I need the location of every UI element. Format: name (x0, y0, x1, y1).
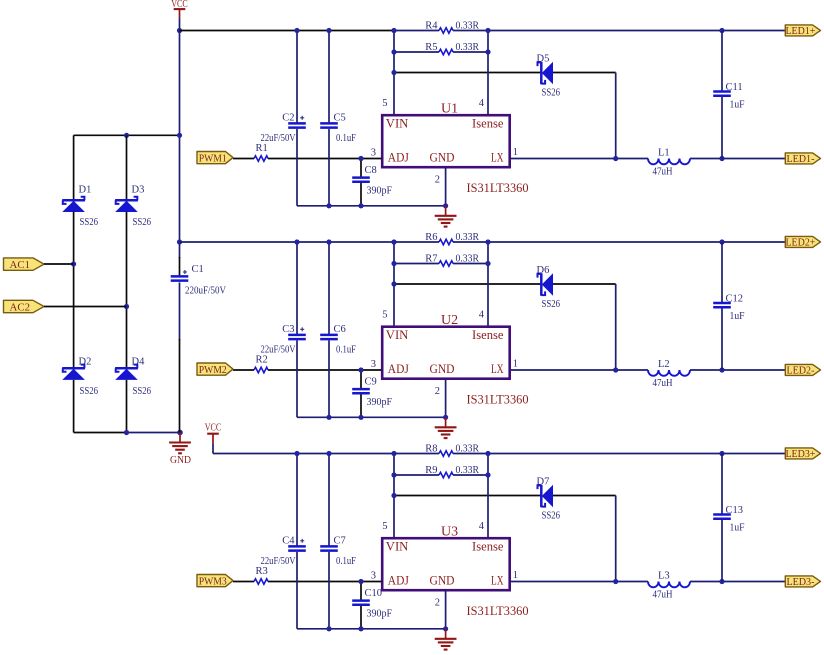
port LED1+ (785, 25, 820, 36)
diode D3 SS26 (115, 199, 138, 202)
op-amp U2 IS31LT3360 regulator box (382, 327, 510, 379)
svg-text:47uH: 47uH (653, 590, 673, 601)
wire VCC stub (179, 19, 181, 31)
svg-text:R7: R7 (425, 253, 437, 264)
svg-text:R8: R8 (425, 443, 437, 454)
svg-text:ADJ: ADJ (388, 150, 409, 165)
wire freewheel row to D6 (394, 283, 541, 285)
ground symbol GND main (179, 433, 181, 443)
svg-text:5: 5 (382, 309, 387, 320)
wire Isense pin stub (487, 31, 489, 117)
svg-text:LED3+: LED3+ (785, 448, 815, 460)
svg-text:PWM2: PWM2 (199, 364, 227, 376)
wire D6 anode down to LX (615, 284, 617, 370)
svg-text:VIN: VIN (386, 539, 409, 554)
capacitor C13 1uF (721, 454, 723, 514)
ground symbol channel 3 (445, 629, 447, 639)
ground symbol channel 1 (445, 206, 447, 216)
svg-text:390pF: 390pF (367, 185, 393, 196)
wire ADJ row from PWM3 (233, 581, 254, 583)
capacitor C12 1uF (721, 242, 723, 302)
svg-text:D5: D5 (537, 54, 550, 65)
port AC2 (4, 300, 45, 312)
svg-text:4: 4 (479, 309, 485, 320)
svg-text:GND: GND (430, 150, 455, 165)
power symbol VCC top (174, 8, 186, 10)
svg-text:C3: C3 (282, 324, 294, 335)
svg-text:0.33R: 0.33R (456, 465, 480, 476)
wire R7 row (394, 263, 439, 265)
svg-text:0.1uF: 0.1uF (336, 556, 356, 567)
wire ground row channel 1 (297, 205, 446, 207)
svg-text:47uH: 47uH (653, 167, 673, 178)
svg-text:220uF/50V: 220uF/50V (185, 286, 226, 297)
node channel2 rail tap (177, 239, 182, 244)
svg-text:SS26: SS26 (80, 386, 99, 397)
diode D1 SS26 (62, 199, 85, 202)
svg-text:D2: D2 (79, 356, 92, 367)
node AC2 junction (124, 304, 129, 309)
svg-text:L2: L2 (658, 359, 670, 370)
svg-text:LED2-: LED2- (786, 365, 814, 377)
svg-text:1uF: 1uF (730, 99, 745, 110)
capacitor C8 390pF (360, 159, 362, 177)
svg-text:1: 1 (513, 147, 518, 158)
svg-text:0.1uF: 0.1uF (336, 344, 356, 355)
wire VIN pin stub (393, 242, 395, 328)
wire VCC rail channel 1 (180, 30, 395, 32)
resistor R3 (254, 579, 268, 584)
port LED3+ (785, 448, 820, 459)
svg-text:C11: C11 (726, 82, 743, 93)
wire GND pin stub (445, 167, 447, 206)
resistor R7 0.33R (439, 451, 453, 456)
svg-text:3: 3 (371, 571, 376, 582)
wire bridge right column lower (126, 380, 128, 433)
op-amp U1 IS31LT3360 regulator box (382, 115, 510, 167)
node junctions channel 1 top (391, 28, 396, 33)
capacitor C1 220uF/50V (179, 242, 181, 258)
svg-text:C6: C6 (334, 324, 346, 335)
svg-text:1: 1 (513, 570, 518, 581)
svg-text:Isense: Isense (472, 327, 504, 342)
svg-text:VIN: VIN (386, 327, 409, 342)
wire R9 row (394, 474, 439, 476)
svg-text:C8: C8 (365, 165, 377, 176)
ground symbol channel 2 (445, 417, 447, 427)
svg-text:C4: C4 (282, 535, 295, 546)
svg-text:LX: LX (491, 150, 504, 165)
wire ADJ row from PWM2 (233, 369, 254, 371)
wire R5 row (394, 51, 439, 53)
capacitor C9 390pF (360, 370, 362, 388)
svg-text:2: 2 (435, 175, 440, 186)
resistor R9 0.33R (439, 472, 453, 477)
svg-text:ADJ: ADJ (388, 361, 409, 376)
wire Isense pin stub (487, 242, 489, 328)
svg-text:R6: R6 (425, 232, 437, 243)
svg-text:SS26: SS26 (133, 217, 152, 228)
svg-text:C5: C5 (334, 112, 346, 123)
svg-text:0.1uF: 0.1uF (336, 133, 356, 144)
wire bridge left column upper (73, 135, 75, 200)
svg-text:C2: C2 (282, 112, 294, 123)
svg-text:R3: R3 (256, 566, 268, 577)
svg-text:5: 5 (382, 521, 387, 532)
svg-text:3: 3 (371, 359, 376, 370)
wire VIN pin stub (393, 454, 395, 540)
wire D1 anode to AC1 node (73, 212, 75, 368)
wire freewheel row to D5 (394, 72, 541, 74)
inductor L2 47uH (648, 370, 690, 376)
svg-text:2: 2 (435, 386, 440, 397)
svg-text:R5: R5 (425, 42, 437, 53)
svg-text:IS31LT3360: IS31LT3360 (467, 603, 529, 618)
svg-text:VCC: VCC (171, 0, 188, 10)
svg-text:22uF/50V: 22uF/50V (261, 133, 296, 144)
svg-text:0.33R: 0.33R (456, 42, 480, 53)
wire D7 anode down to LX (615, 496, 617, 582)
svg-text:U3: U3 (441, 525, 458, 540)
wire AC1 stub (44, 263, 74, 265)
node VCC rail junction (177, 28, 182, 33)
port PWM2 (197, 363, 233, 375)
svg-text:0.33R: 0.33R (456, 253, 480, 264)
wire VCC lower stub (212, 443, 214, 453)
svg-text:0.33R: 0.33R (456, 443, 480, 454)
wire VIN pin stub (393, 31, 395, 117)
svg-text:2: 2 (435, 598, 440, 609)
svg-text:LED1-: LED1- (786, 153, 814, 165)
port AC1 (4, 258, 45, 270)
svg-text:SS26: SS26 (542, 299, 561, 310)
svg-text:R4: R4 (425, 20, 438, 31)
svg-text:1: 1 (513, 359, 518, 370)
port PWM1 (197, 152, 233, 164)
diode D2 SS26 (62, 367, 85, 370)
wire Isense pin stub (487, 454, 489, 540)
svg-text:LED3-: LED3- (786, 576, 814, 588)
resistor R5 0.33R (439, 49, 453, 54)
port LED3- (785, 576, 820, 587)
svg-text:LX: LX (491, 573, 504, 588)
svg-text:L1: L1 (658, 148, 670, 159)
diode D4 SS26 (115, 367, 138, 370)
svg-text:C10: C10 (365, 588, 383, 599)
svg-text:C9: C9 (365, 376, 377, 387)
svg-text:Isense: Isense (472, 539, 504, 554)
svg-text:1uF: 1uF (730, 311, 745, 322)
wire VCC rail channel 3 (213, 453, 394, 455)
svg-text:22uF/50V: 22uF/50V (261, 556, 296, 567)
svg-text:R2: R2 (256, 355, 268, 366)
svg-text:C12: C12 (726, 294, 744, 305)
svg-text:SS26: SS26 (542, 511, 561, 522)
capacitor C11 1uF (721, 31, 723, 91)
wire D3 anode to AC2 node (126, 212, 128, 368)
diode D7 SS26 schottky (540, 485, 543, 507)
svg-text:5: 5 (382, 98, 387, 109)
node ground junction (177, 430, 183, 436)
svg-text:ADJ: ADJ (388, 573, 409, 588)
node junctions channel 3 top (391, 451, 396, 456)
svg-text:GND: GND (430, 573, 455, 588)
wire LX output row channel 3 (511, 581, 649, 583)
svg-text:4: 4 (479, 521, 485, 532)
diode D5 SS26 schottky (540, 62, 543, 84)
svg-text:GND: GND (170, 454, 191, 466)
svg-text:LED1+: LED1+ (785, 25, 815, 37)
wire ground row channel 3 (297, 628, 446, 630)
svg-text:GND: GND (430, 361, 455, 376)
svg-text:3: 3 (371, 148, 376, 159)
op-amp U3 IS31LT3360 regulator box (382, 538, 510, 590)
wire freewheel row to D7 (394, 495, 541, 497)
svg-text:D6: D6 (537, 265, 550, 276)
capacitor C5 0.1uF (328, 31, 330, 123)
port PWM3 (197, 575, 233, 587)
wire D5 anode down to LX (615, 73, 617, 159)
svg-text:VCC: VCC (205, 423, 222, 434)
svg-text:0.33R: 0.33R (456, 20, 480, 31)
svg-text:D7: D7 (537, 477, 550, 488)
node junctions channel 2 top (391, 239, 396, 244)
capacitor C10 390pF (360, 582, 362, 600)
svg-text:U2: U2 (441, 313, 458, 328)
resistor R3 0.33R (439, 28, 453, 33)
wire LX output row channel 2 (511, 369, 649, 371)
wire LX output row channel 1 (511, 158, 649, 160)
svg-text:1uF: 1uF (730, 522, 745, 533)
svg-text:IS31LT3360: IS31LT3360 (467, 391, 529, 406)
capacitor C6 0.1uF (328, 242, 330, 334)
svg-text:D4: D4 (132, 356, 146, 367)
port LED1- (785, 153, 820, 164)
wire bridge bottom row to ground node (127, 432, 181, 434)
wire ground row channel 2 (297, 416, 446, 418)
svg-text:R1: R1 (256, 143, 268, 154)
svg-text:L3: L3 (658, 571, 670, 582)
svg-text:AC2: AC2 (10, 301, 31, 313)
wire bridge left column lower (73, 380, 75, 433)
svg-text:SS26: SS26 (133, 386, 152, 397)
svg-text:IS31LT3360: IS31LT3360 (467, 180, 529, 195)
wire VCC rail channel 2 (180, 241, 395, 243)
wire bridge bottom row black (74, 432, 127, 434)
svg-text:U1: U1 (441, 102, 458, 117)
wire bridge top row (74, 134, 180, 136)
wire VCC column (179, 31, 181, 243)
wire GND pin stub (445, 590, 447, 629)
wire bridge right column upper (126, 135, 128, 200)
svg-text:4: 4 (479, 98, 485, 109)
svg-text:D1: D1 (79, 185, 92, 196)
wire ADJ row from PWM1 (233, 158, 254, 160)
resistor R5 0.33R (439, 239, 453, 244)
capacitor C3 22uF/50V (296, 242, 298, 334)
svg-text:390pF: 390pF (367, 397, 393, 408)
resistor R7 0.33R (439, 261, 453, 266)
capacitor C7 0.1uF (328, 454, 330, 546)
svg-text:SS26: SS26 (80, 217, 99, 228)
svg-text:C13: C13 (726, 505, 744, 516)
svg-text:Isense: Isense (472, 116, 504, 131)
diode D6 SS26 schottky (540, 273, 543, 295)
svg-text:47uH: 47uH (653, 378, 673, 389)
wire GND pin stub (445, 378, 447, 417)
svg-text:VIN: VIN (386, 116, 409, 131)
port LED2+ (785, 236, 820, 247)
power symbol VCC lower (207, 433, 219, 435)
svg-text:PWM3: PWM3 (199, 575, 227, 587)
svg-text:AC1: AC1 (10, 259, 31, 271)
wire AC2 stub (44, 306, 127, 308)
inductor L3 47uH (648, 582, 690, 588)
svg-text:LED2+: LED2+ (785, 237, 815, 249)
svg-text:PWM1: PWM1 (199, 152, 227, 164)
inductor L1 47uH (648, 159, 690, 165)
svg-text:C7: C7 (334, 535, 346, 546)
resistor R2 (254, 367, 268, 372)
svg-text:LX: LX (491, 361, 504, 376)
svg-text:SS26: SS26 (542, 88, 561, 99)
svg-text:0.33R: 0.33R (456, 232, 480, 243)
svg-text:C1: C1 (192, 264, 204, 275)
resistor R1 (254, 156, 268, 161)
svg-text:390pF: 390pF (367, 608, 393, 619)
port LED2- (785, 364, 820, 375)
capacitor C2 22uF/50V (296, 31, 298, 123)
node AC1 junction (71, 261, 76, 266)
svg-text:D3: D3 (132, 185, 145, 196)
svg-text:R9: R9 (425, 465, 437, 476)
svg-text:22uF/50V: 22uF/50V (261, 344, 296, 355)
capacitor C4 22uF/50V (296, 454, 298, 546)
